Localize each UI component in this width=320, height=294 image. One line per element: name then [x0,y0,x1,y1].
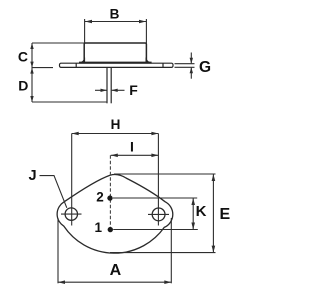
can bottom fillet right [146,58,151,63]
dimension I line [111,154,159,158]
extension line E top [114,173,216,175]
flange tab divider right [162,63,164,67]
extension line H left / hole axis [71,134,73,226]
extension line H right / hole axis [157,134,159,226]
extension line B right [145,19,147,43]
dimension G arrows [190,53,193,79]
svg-text:K: K [196,203,207,220]
extension line B left [84,19,86,43]
pin 1 dot [108,227,113,232]
leader line J [40,176,67,208]
extension line A right [170,218,172,283]
dimension E line [212,174,216,253]
flange outline (bottom view) [57,175,173,254]
flange (side view) [60,63,174,68]
svg-text:2: 2 [96,190,104,205]
hole left crosshair horizontal [61,213,82,215]
mounting hole left [65,208,77,220]
svg-text:1: 1 [95,220,103,235]
svg-text:A: A [110,262,122,279]
flange tab divider left [75,63,77,67]
svg-text:E: E [219,206,230,223]
pin 2 dot [107,195,112,200]
extension line pin end [32,101,107,103]
pin (side view) [107,67,111,103]
dimension F arrows [95,89,125,92]
pins axis line [109,155,111,229]
extension line can-top to C [32,42,84,44]
dimension B line [85,20,146,24]
extension line A left [57,218,59,283]
svg-text:F: F [129,82,138,98]
dimension A line [58,280,171,284]
extension line K top (pin 2) [113,197,197,199]
extension line K bottom (pin 1) [113,229,198,231]
svg-text:C: C [18,48,28,64]
svg-text:I: I [130,139,134,155]
svg-text:G: G [199,59,211,76]
hole right crosshair horizontal [148,213,169,215]
svg-text:J: J [28,168,36,184]
mounting hole right [152,208,165,221]
extension line E bottom [110,252,216,254]
extension lines G [175,63,195,65]
svg-text:B: B [110,7,120,22]
can seat line [79,62,152,64]
extension line seating plane [32,67,53,69]
svg-text:D: D [18,78,28,94]
dimension K line [191,198,195,230]
dimension H line [72,132,159,136]
can outline (side view) [79,43,151,63]
svg-text:H: H [111,117,121,132]
dimension C/D vertical line [30,43,33,102]
can bottom fillet left [79,58,84,63]
